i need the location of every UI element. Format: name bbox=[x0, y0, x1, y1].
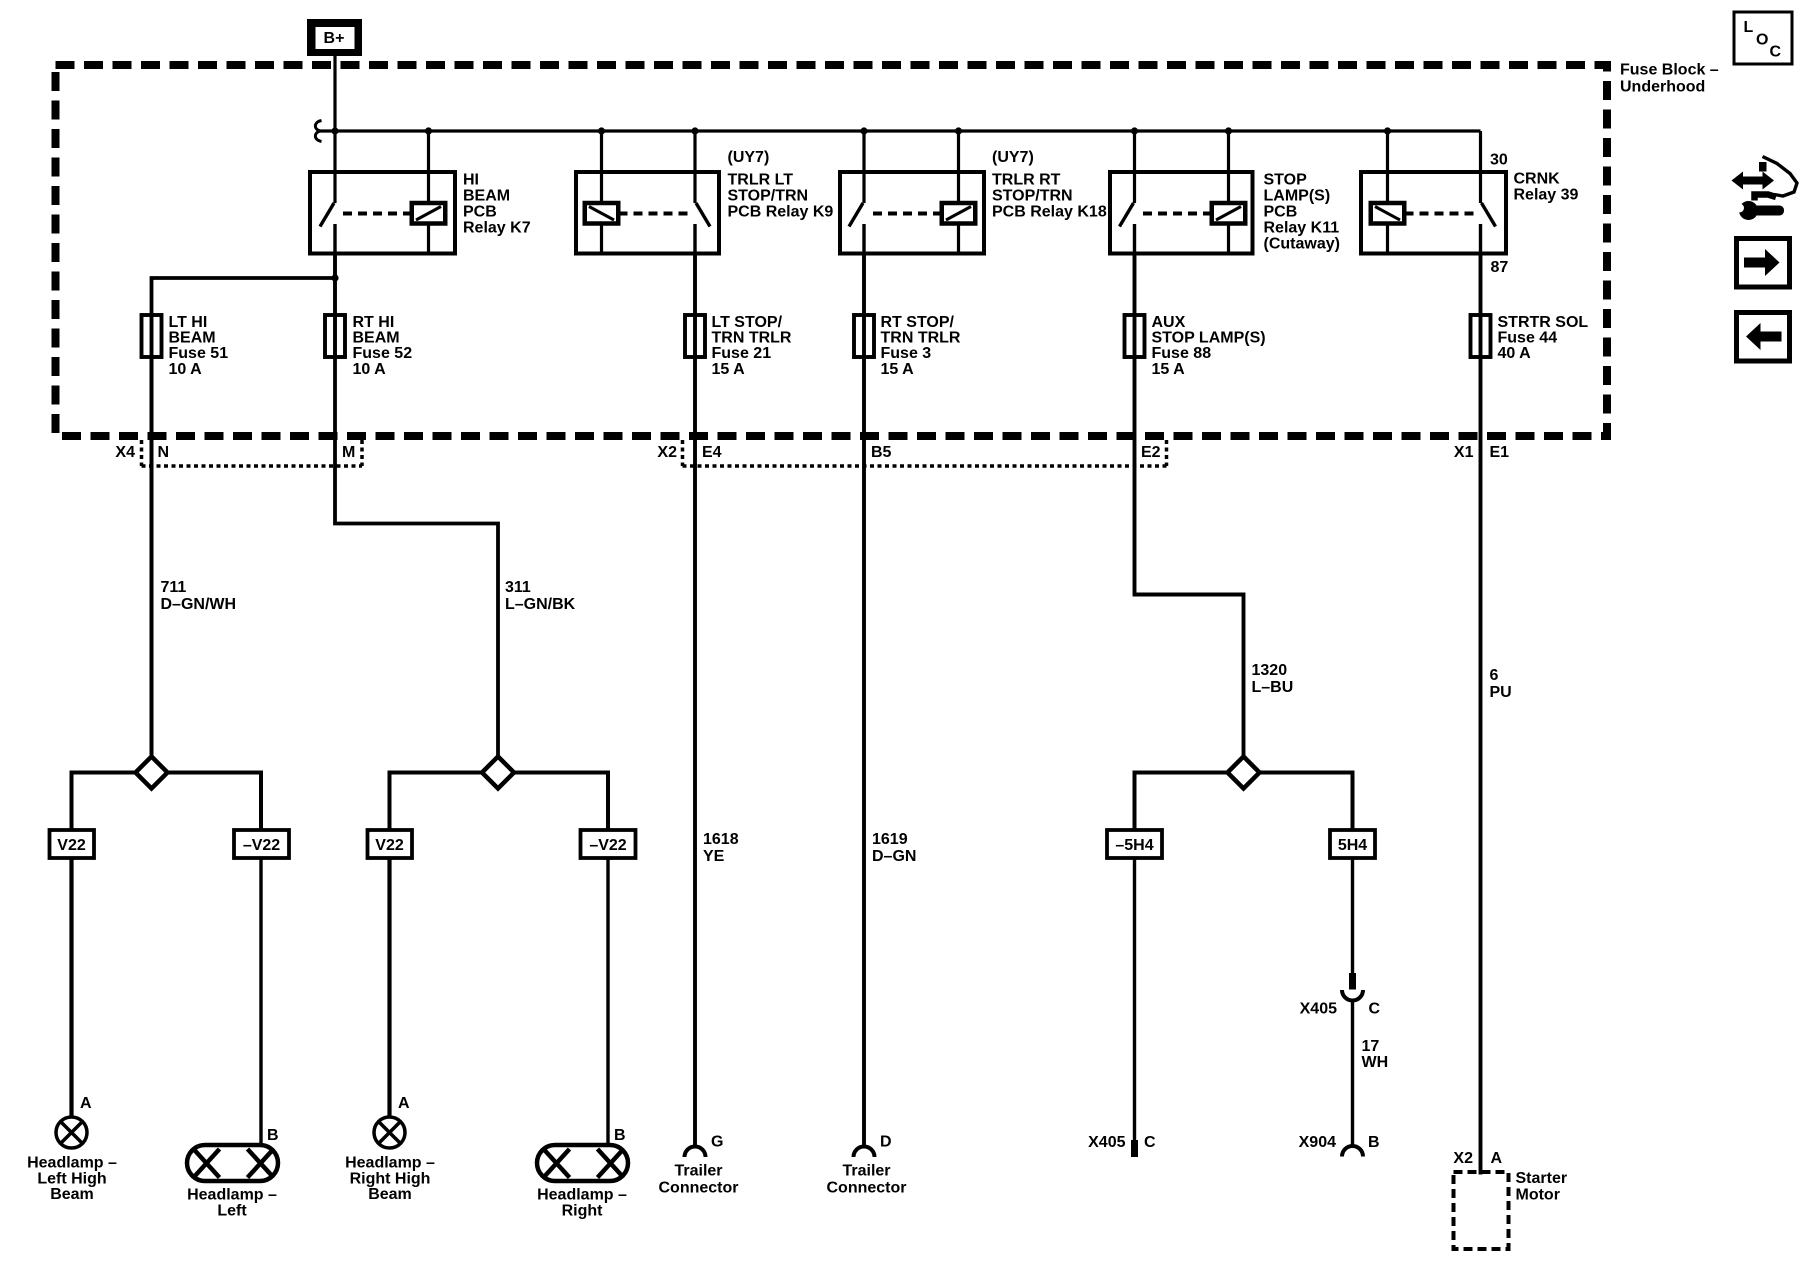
svg-text:N: N bbox=[158, 444, 170, 461]
fuse 51 (LT HI BEAM 10 A) bbox=[142, 314, 229, 378]
headlamp - left high beam lamp bbox=[27, 1117, 117, 1203]
svg-text:LT STOP/: LT STOP/ bbox=[712, 314, 783, 331]
svg-text:Headlamp –: Headlamp – bbox=[187, 1187, 277, 1204]
wire 1320 L-BU: fuse 88 to splice bbox=[1135, 357, 1294, 758]
svg-text:40 A: 40 A bbox=[1498, 345, 1532, 362]
svg-text:M: M bbox=[342, 444, 355, 461]
fuse 88 (AUX STOP LAMP(S) 15 A) bbox=[1125, 314, 1266, 378]
svg-text:X2: X2 bbox=[1453, 1150, 1473, 1167]
backward arrow box bbox=[1737, 313, 1790, 362]
svg-text:V22: V22 bbox=[375, 837, 404, 854]
starter motor X2 pin A labels bbox=[1453, 1150, 1502, 1167]
svg-text:CRNK: CRNK bbox=[1514, 171, 1561, 188]
connector strip X2/E4, B5, E2 bbox=[657, 440, 1166, 466]
svg-text:STOP: STOP bbox=[1264, 172, 1308, 189]
wire from splice to -5H4 / X405 pin C bbox=[1088, 858, 1156, 1157]
fuse 3 (RT STOP/TRN TRLR 15 A) bbox=[854, 314, 961, 378]
svg-text:LAMP(S): LAMP(S) bbox=[1264, 188, 1331, 205]
LOC legend box bbox=[1734, 12, 1792, 64]
junction: bus / K9 switch bbox=[691, 127, 698, 134]
svg-text:Fuse 3: Fuse 3 bbox=[881, 345, 932, 362]
connector code -V22 (right) bbox=[581, 830, 636, 858]
svg-text:X904: X904 bbox=[1299, 1134, 1336, 1151]
headlamp - right bbox=[537, 1145, 628, 1220]
svg-text:STOP/TRN: STOP/TRN bbox=[992, 188, 1073, 205]
svg-text:RT STOP/: RT STOP/ bbox=[881, 314, 955, 331]
svg-text:Fuse 88: Fuse 88 bbox=[1152, 345, 1212, 362]
svg-text:Relay 39: Relay 39 bbox=[1514, 187, 1579, 204]
svg-text:LT HI: LT HI bbox=[169, 314, 208, 331]
B+ bus bar bbox=[321, 129, 1481, 132]
connector code V22 (right) bbox=[368, 830, 413, 858]
svg-text:(UY7): (UY7) bbox=[728, 149, 770, 166]
junction: bus / K18 coil bbox=[955, 127, 962, 134]
svg-text:(UY7): (UY7) bbox=[992, 149, 1034, 166]
starter motor dashed box bbox=[1454, 1170, 1568, 1249]
connector code V22 (left) bbox=[50, 830, 95, 858]
svg-text:PCB: PCB bbox=[1264, 204, 1298, 221]
connector code -5H4 bbox=[1107, 830, 1162, 858]
svg-text:X405: X405 bbox=[1088, 1134, 1125, 1151]
svg-text:15 A: 15 A bbox=[712, 361, 746, 378]
svg-text:Connector: Connector bbox=[659, 1180, 739, 1197]
forward arrow box bbox=[1737, 239, 1790, 288]
svg-text:17: 17 bbox=[1362, 1038, 1380, 1055]
B+ battery feed terminal bbox=[307, 19, 362, 56]
svg-text:C: C bbox=[1770, 44, 1782, 61]
headlamp - left bbox=[187, 1145, 278, 1220]
junction: bus / K11 switch bbox=[1131, 127, 1138, 134]
svg-text:10 A: 10 A bbox=[353, 361, 387, 378]
wire: relay K11 output down to fuse 88 bbox=[1133, 254, 1137, 316]
connector strip X4/N and M bbox=[115, 440, 362, 466]
svg-text:C: C bbox=[1369, 1001, 1381, 1018]
svg-text:WH: WH bbox=[1362, 1054, 1389, 1071]
svg-text:X405: X405 bbox=[1300, 1001, 1337, 1018]
svg-text:TRLR RT: TRLR RT bbox=[992, 172, 1061, 189]
wire 17 WH: X405 to X904 bbox=[1353, 1001, 1389, 1146]
svg-text:X4: X4 bbox=[115, 444, 135, 461]
wire: relay K18 output down to fuse 3 bbox=[862, 254, 866, 316]
svg-text:A: A bbox=[398, 1095, 410, 1112]
svg-text:Beam: Beam bbox=[368, 1186, 412, 1203]
connector X1/E1 labels bbox=[1454, 444, 1509, 461]
wire to headlamp left high beam pin A bbox=[72, 858, 93, 1117]
fuse 21 (LT STOP/TRN TRLR 15 A) bbox=[685, 314, 792, 378]
svg-text:X2: X2 bbox=[657, 444, 677, 461]
svg-text:1619: 1619 bbox=[872, 831, 908, 848]
svg-text:311: 311 bbox=[505, 579, 531, 596]
svg-text:711: 711 bbox=[161, 579, 187, 596]
relay K11 (STOP LAMP(S) PCB, Cutaway) bbox=[1110, 131, 1340, 254]
svg-text:15 A: 15 A bbox=[881, 361, 915, 378]
wire 1619 D-GN: fuse 3 to trailer connector bbox=[864, 357, 916, 1147]
wire: branch jog left to fuse 51 bbox=[152, 278, 336, 315]
svg-text:Fuse 51: Fuse 51 bbox=[169, 345, 229, 362]
wire to headlamp right high beam pin A bbox=[390, 858, 411, 1117]
trailer connector pin G bbox=[659, 1134, 739, 1197]
svg-text:PU: PU bbox=[1490, 684, 1512, 701]
svg-text:Fuse 21: Fuse 21 bbox=[712, 345, 772, 362]
svg-text:Headlamp –: Headlamp – bbox=[537, 1187, 627, 1204]
fuse 52 (RT HI BEAM 10 A) bbox=[325, 314, 412, 378]
svg-text:TRN TRLR: TRN TRLR bbox=[712, 330, 792, 347]
connector code 5H4 bbox=[1330, 830, 1375, 858]
splice diamond (311 headlamp right) bbox=[390, 757, 609, 831]
svg-text:Connector: Connector bbox=[827, 1180, 907, 1197]
svg-text:–V22: –V22 bbox=[589, 837, 626, 854]
svg-text:BEAM: BEAM bbox=[353, 330, 400, 347]
svg-text:5H4: 5H4 bbox=[1338, 837, 1367, 854]
wire 6 PU: fuse 44 to starter motor bbox=[1481, 357, 1512, 1175]
wire to headlamp right pin B bbox=[608, 858, 626, 1145]
svg-text:TRLR LT: TRLR LT bbox=[728, 172, 794, 189]
svg-text:Headlamp –: Headlamp – bbox=[27, 1155, 117, 1172]
svg-text:Starter: Starter bbox=[1516, 1170, 1568, 1187]
relay 39 (CRNK) bbox=[1361, 131, 1579, 276]
svg-text:Fuse 44: Fuse 44 bbox=[1498, 330, 1558, 347]
svg-text:L–BU: L–BU bbox=[1252, 679, 1294, 696]
svg-text:1618: 1618 bbox=[703, 831, 739, 848]
svg-text:Right: Right bbox=[562, 1203, 604, 1220]
svg-text:G: G bbox=[711, 1134, 723, 1151]
svg-text:Trailer: Trailer bbox=[842, 1163, 890, 1180]
headlamp - right high beam lamp bbox=[345, 1117, 435, 1203]
splice diamond (1320 aux stop) bbox=[1135, 757, 1353, 831]
svg-text:B: B bbox=[1368, 1134, 1380, 1151]
connector code -V22 (left) bbox=[234, 830, 289, 858]
svg-text:STOP/TRN: STOP/TRN bbox=[728, 188, 809, 205]
svg-text:V22: V22 bbox=[57, 837, 86, 854]
svg-text:E4: E4 bbox=[702, 444, 722, 461]
wire: relay K9 output down to fuse 21 bbox=[693, 254, 697, 316]
svg-text:E1: E1 bbox=[1490, 444, 1510, 461]
svg-text:PCB Relay K9: PCB Relay K9 bbox=[728, 204, 834, 221]
svg-text:D–GN/WH: D–GN/WH bbox=[161, 596, 237, 613]
svg-text:E2: E2 bbox=[1141, 444, 1161, 461]
svg-text:1320: 1320 bbox=[1252, 662, 1288, 679]
svg-text:B5: B5 bbox=[871, 444, 892, 461]
svg-text:Left High: Left High bbox=[37, 1171, 106, 1188]
svg-text:6: 6 bbox=[1490, 667, 1499, 684]
svg-text:–5H4: –5H4 bbox=[1115, 837, 1153, 854]
svg-text:Relay K7: Relay K7 bbox=[463, 220, 531, 237]
svg-text:A: A bbox=[1491, 1150, 1503, 1167]
svg-text:YE: YE bbox=[703, 848, 725, 865]
svg-text:Left: Left bbox=[217, 1203, 247, 1220]
svg-text:L: L bbox=[1744, 19, 1754, 36]
svg-text:X1: X1 bbox=[1454, 444, 1474, 461]
junction: K7 output / fuse 51 branch bbox=[331, 274, 338, 281]
svg-text:RT HI: RT HI bbox=[353, 314, 395, 331]
svg-text:Headlamp –: Headlamp – bbox=[345, 1155, 435, 1172]
svg-text:D–GN: D–GN bbox=[872, 848, 916, 865]
svg-text:O: O bbox=[1756, 32, 1768, 49]
junction: bus / K18 switch bbox=[860, 127, 867, 134]
svg-text:PCB Relay K18: PCB Relay K18 bbox=[992, 204, 1107, 221]
svg-text:87: 87 bbox=[1491, 259, 1509, 276]
wire 311 L-GN/BK: fuse 52 to splice bbox=[335, 357, 576, 758]
svg-text:BEAM: BEAM bbox=[169, 330, 216, 347]
svg-text:A: A bbox=[80, 1095, 92, 1112]
svg-text:TRN TRLR: TRN TRLR bbox=[881, 330, 961, 347]
service/diagnostic icon (arrows and wrench) bbox=[1732, 157, 1798, 221]
svg-text:15 A: 15 A bbox=[1152, 361, 1186, 378]
wire: relay K7 output down to fuse 52 bbox=[333, 254, 337, 316]
svg-text:L–GN/BK: L–GN/BK bbox=[505, 596, 576, 613]
svg-text:Fuse 52: Fuse 52 bbox=[353, 345, 413, 362]
svg-text:C: C bbox=[1144, 1134, 1156, 1151]
junction: bus / relay 39 coil bbox=[1384, 127, 1391, 134]
wire 711 D-GN/WH: fuse 51 to splice bbox=[152, 357, 237, 758]
svg-text:D: D bbox=[880, 1134, 892, 1151]
svg-text:10 A: 10 A bbox=[169, 361, 203, 378]
junction: bus / K11 coil bbox=[1225, 127, 1232, 134]
wire to headlamp left pin B bbox=[261, 858, 279, 1145]
svg-text:Motor: Motor bbox=[1516, 1187, 1560, 1204]
wire from splice to 5H4 / inline connector X405 pin C bbox=[1300, 858, 1381, 1018]
wire: relay 39 pin 87 down to fuse 44 bbox=[1479, 254, 1483, 316]
fuse block label bbox=[1620, 62, 1719, 96]
wire: B+ feed down to bus bbox=[333, 55, 336, 131]
relay K18 (TRLR RT STOP/TRN PCB, UY7) bbox=[840, 131, 1107, 254]
bus continuation curl bbox=[315, 121, 321, 142]
junction: bus / B+ feed bbox=[331, 127, 338, 134]
svg-text:Fuse Block –: Fuse Block – bbox=[1620, 62, 1719, 79]
fuse 44 (STRTR SOL 40 A) bbox=[1471, 314, 1589, 362]
trailer connector pin D bbox=[827, 1134, 907, 1197]
svg-text:Right High: Right High bbox=[350, 1171, 431, 1188]
svg-text:–V22: –V22 bbox=[243, 837, 280, 854]
svg-text:PCB: PCB bbox=[463, 204, 497, 221]
svg-text:30: 30 bbox=[1490, 152, 1508, 169]
svg-text:AUX: AUX bbox=[1152, 314, 1186, 331]
svg-text:STRTR SOL: STRTR SOL bbox=[1498, 314, 1589, 331]
svg-text:HI: HI bbox=[463, 172, 479, 189]
svg-text:B: B bbox=[267, 1127, 279, 1144]
fuse block underhood dashed border bbox=[56, 65, 1608, 436]
splice diamond (711 headlamp left) bbox=[72, 757, 262, 831]
junction: bus / K9 coil bbox=[598, 127, 605, 134]
svg-text:BEAM: BEAM bbox=[463, 188, 510, 205]
junction: bus / K7 coil bbox=[425, 127, 432, 134]
relay K9 (TRLR LT STOP/TRN PCB, UY7) bbox=[576, 131, 833, 254]
svg-text:Trailer: Trailer bbox=[674, 1163, 722, 1180]
svg-text:Underhood: Underhood bbox=[1620, 79, 1705, 96]
svg-text:B+: B+ bbox=[324, 30, 345, 47]
svg-text:(Cutaway): (Cutaway) bbox=[1264, 236, 1340, 253]
svg-text:STOP LAMP(S): STOP LAMP(S) bbox=[1152, 330, 1266, 347]
svg-text:B: B bbox=[614, 1127, 626, 1144]
svg-text:Relay K11: Relay K11 bbox=[1264, 220, 1340, 237]
wire 1618 YE: fuse 21 to trailer connector bbox=[695, 357, 739, 1147]
connector X904 pin B bbox=[1299, 1134, 1380, 1157]
svg-text:Beam: Beam bbox=[50, 1186, 94, 1203]
relay K7 (HI BEAM PCB) bbox=[310, 131, 531, 254]
